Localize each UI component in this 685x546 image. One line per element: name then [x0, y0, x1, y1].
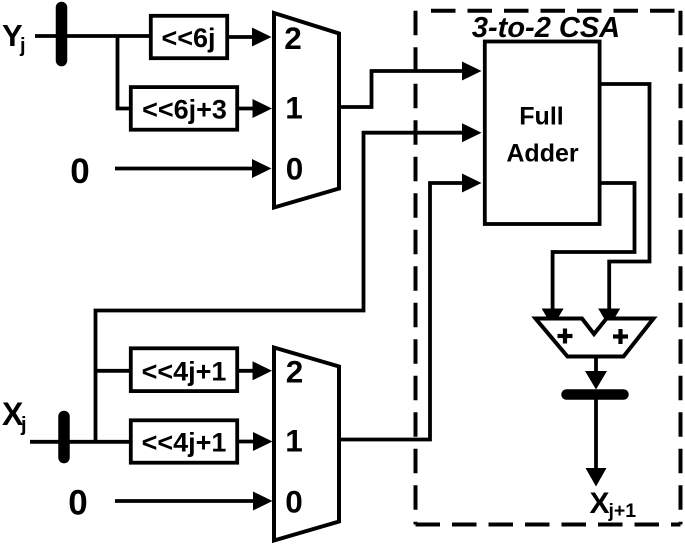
- svg-text:X: X: [590, 487, 610, 520]
- svg-text:j+1: j+1: [608, 500, 637, 522]
- svg-text:0: 0: [68, 484, 87, 523]
- svg-text:2: 2: [284, 20, 302, 56]
- svg-text:3-to-2 CSA: 3-to-2 CSA: [472, 12, 620, 44]
- svg-text:<<4j+1: <<4j+1: [142, 428, 227, 458]
- svg-text:Full: Full: [519, 103, 563, 131]
- svg-text:Adder: Adder: [506, 140, 579, 168]
- svg-text:0: 0: [286, 151, 304, 187]
- svg-text:<<4j+1: <<4j+1: [142, 357, 227, 387]
- svg-text:<<6j: <<6j: [161, 23, 215, 53]
- svg-text:1: 1: [285, 90, 303, 126]
- svg-text:0: 0: [285, 484, 303, 520]
- svg-text:j: j: [20, 414, 27, 436]
- svg-text:1: 1: [285, 423, 303, 459]
- svg-text:0: 0: [70, 152, 89, 191]
- svg-text:2: 2: [286, 354, 304, 390]
- svg-text:j: j: [19, 35, 26, 57]
- svg-text:<<6j+3: <<6j+3: [142, 95, 227, 125]
